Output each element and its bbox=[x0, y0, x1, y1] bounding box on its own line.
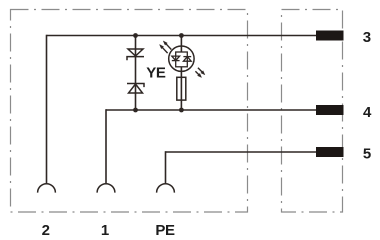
resistor R1 bbox=[177, 77, 186, 100]
svg-text:PE: PE bbox=[155, 222, 175, 239]
svg-text:4: 4 bbox=[363, 104, 372, 121]
label: pin number 4 bbox=[363, 104, 372, 121]
terminal pin 5 (black contact bar) bbox=[316, 147, 344, 157]
wire: LED branch vertical (top and bottom stubs) bbox=[180, 36, 182, 111]
socket contact 2 (arc) bbox=[38, 184, 56, 193]
svg-text:5: 5 bbox=[363, 146, 371, 163]
wire: top rail (node to pin 3) bbox=[47, 35, 319, 37]
wire: terminal PE down-lead bbox=[165, 151, 167, 183]
wire: terminal 1 down-lead bbox=[105, 109, 107, 183]
LED U1: light rays lower-right bbox=[195, 68, 205, 78]
label: LED colour "YE" bbox=[146, 64, 166, 81]
zener diode V2 (cathode up) bbox=[127, 84, 144, 94]
zener diode V1 (cathode down) bbox=[127, 49, 144, 60]
wire: terminal 2 down-lead bbox=[46, 35, 48, 183]
label: terminal number 2 bbox=[42, 222, 50, 239]
frame: plug pin region outline (right, dash-dot) bbox=[282, 10, 343, 213]
label: pin number 5 bbox=[363, 146, 371, 163]
junction: suppressor top node bbox=[133, 33, 138, 38]
socket contact 1 (arc) bbox=[97, 184, 115, 193]
svg-text:2: 2 bbox=[42, 222, 50, 239]
LED U1: antiparallel chip pair inside circle bbox=[172, 52, 191, 67]
socket contact PE (arc) bbox=[157, 184, 175, 193]
terminal pin 3 (black contact bar) bbox=[316, 31, 344, 41]
label: pin number 3 bbox=[363, 29, 371, 46]
frame: valve connector housing outline (left, dash-dot) bbox=[11, 10, 248, 213]
wire: middle rail (node to pin 4) bbox=[106, 109, 318, 111]
label: terminal number 1 bbox=[101, 222, 109, 239]
svg-text:YE: YE bbox=[146, 64, 166, 81]
LED U1: circle (yellow indicator) bbox=[169, 46, 194, 71]
junction: LED top node bbox=[179, 33, 184, 38]
LED U1: light rays upper-left bbox=[160, 41, 172, 53]
label: terminal PE bbox=[155, 222, 175, 239]
svg-text:1: 1 bbox=[101, 222, 109, 239]
junction: LED bottom node bbox=[179, 108, 184, 113]
terminal pin 4 (black contact bar) bbox=[316, 105, 344, 115]
svg-text:3: 3 bbox=[363, 29, 371, 46]
junction: suppressor bottom node bbox=[133, 108, 138, 113]
wire: PE rail (node to pin 5) bbox=[166, 151, 319, 153]
wire: suppressor branch vertical bbox=[135, 36, 137, 111]
